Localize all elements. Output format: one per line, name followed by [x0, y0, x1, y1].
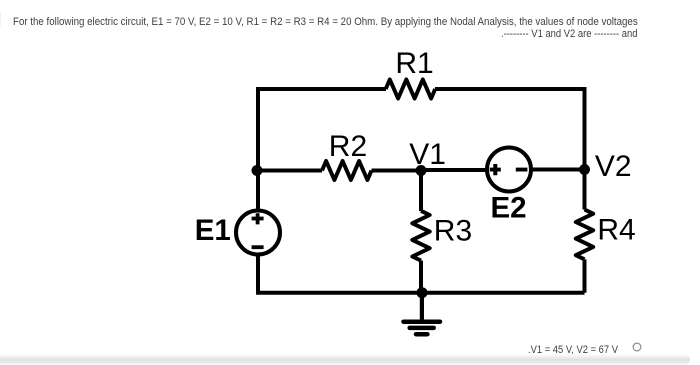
E1 minus sign — [252, 245, 264, 249]
svg-text:V1: V1 — [409, 138, 446, 171]
wire E2 to node V2 — [532, 168, 585, 172]
wire top right horizontal (R1 to right corner) — [435, 87, 585, 91]
wire bottom horizontal — [256, 291, 585, 295]
node V1 dot — [416, 165, 427, 176]
answer radio button — [633, 343, 641, 351]
E2 minus sign — [516, 168, 528, 172]
wire node V1 to E2 — [421, 168, 486, 172]
wire left vertical (top corner to E1) — [256, 87, 260, 210]
resistor R2 — [322, 161, 372, 180]
ground bar 1 — [404, 319, 441, 324]
svg-text:V2: V2 — [595, 150, 632, 183]
wire top left horizontal (left node to R1) — [258, 87, 386, 91]
voltage source E1 circle — [236, 211, 280, 255]
question text line 1 — [13, 16, 638, 28]
wire V1 down to R3 — [419, 171, 423, 212]
ground symbol — [420, 293, 424, 320]
node ground junction dot — [417, 287, 428, 298]
answer text — [528, 344, 618, 356]
resistor R4 — [576, 210, 593, 260]
wire R2 to node V1 — [372, 169, 422, 173]
voltage source E2 circle — [487, 148, 531, 192]
left edge sliver — [0, 12, 1, 26]
ground bar 2 — [410, 326, 434, 331]
E2 plus sign — [490, 164, 501, 175]
node dot left junction — [252, 165, 263, 176]
E1 plus sign — [252, 213, 264, 224]
wire left vertical (E1 to bottom corner) — [256, 255, 260, 293]
svg-text:R3: R3 — [434, 215, 472, 248]
svg-text:E2: E2 — [491, 191, 527, 224]
wire R4 to bottom corner — [583, 259, 587, 292]
node V2 dot — [579, 164, 590, 175]
bottom scrollbar bar — [0, 354, 690, 365]
wire V2 down to R4 — [583, 170, 587, 210]
svg-text:R4: R4 — [597, 214, 635, 247]
svg-text:R1: R1 — [395, 47, 433, 80]
ground bar 3 — [416, 332, 427, 337]
wire middle left (left node to R2) — [258, 169, 322, 173]
svg-text:R2: R2 — [329, 130, 367, 163]
svg-text:E1: E1 — [195, 214, 231, 247]
resistor R1 — [386, 80, 436, 99]
question text line 2 — [501, 28, 638, 40]
wire R3 to bottom wire — [419, 261, 423, 293]
wire right vertical (top corner to V2) — [583, 87, 587, 170]
resistor R3 — [412, 211, 429, 261]
